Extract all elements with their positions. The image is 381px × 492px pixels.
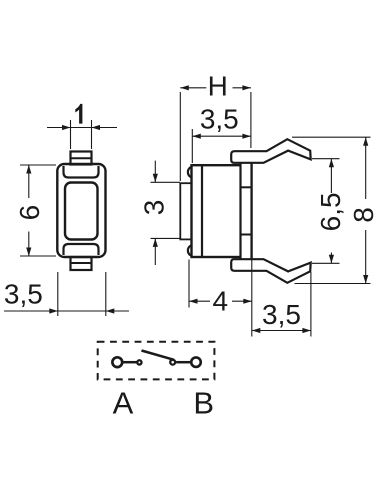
svg-text:6,5: 6,5 (315, 192, 346, 231)
svg-text:4: 4 (213, 286, 229, 317)
svg-text:3: 3 (139, 200, 170, 216)
svg-text:3,5: 3,5 (200, 103, 239, 134)
svg-text:A: A (113, 386, 134, 421)
svg-text:3,5: 3,5 (4, 279, 43, 310)
svg-text:B: B (193, 386, 214, 421)
svg-text:H: H (208, 71, 228, 102)
svg-text:6: 6 (14, 205, 45, 221)
svg-text:8: 8 (348, 207, 379, 223)
svg-text:3,5: 3,5 (262, 299, 301, 330)
